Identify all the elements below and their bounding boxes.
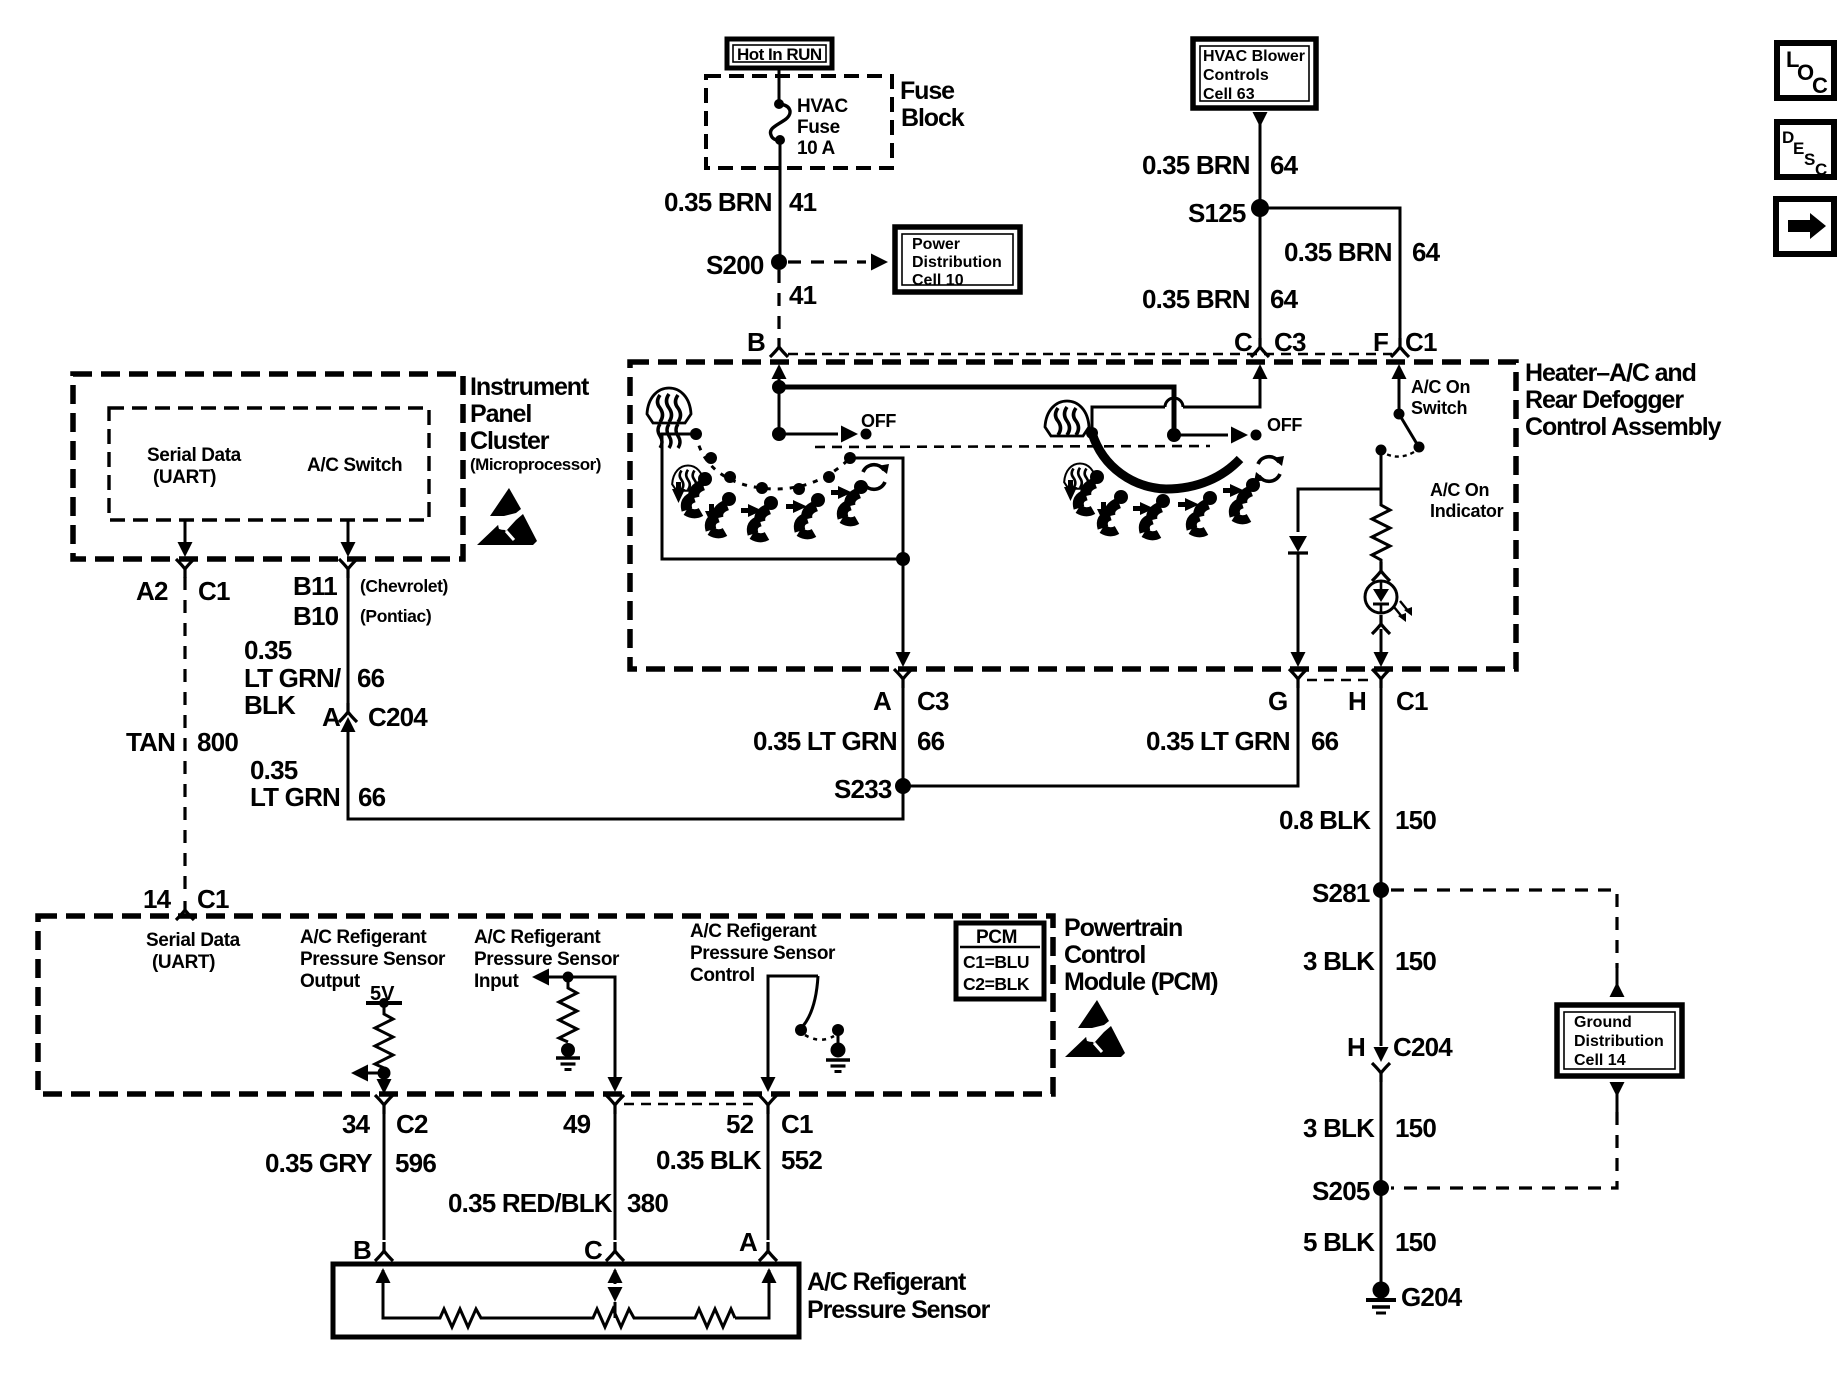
wire: S200 down to B (dashed), label 41 bbox=[777, 270, 780, 340]
wire: 34 to sensor B, 0.35 GRY 596 bbox=[383, 1113, 386, 1240]
svg-text:Input: Input bbox=[474, 971, 519, 992]
wire: S281 down to C204, 3 BLK 150 bbox=[1380, 890, 1383, 1046]
svg-text:H: H bbox=[1348, 686, 1366, 716]
connector chevron A2/C1 bbox=[176, 559, 194, 578]
wire: A down to S233, 0.35 LT GRN 66 bbox=[902, 687, 905, 786]
junction left wiper bbox=[772, 427, 786, 441]
wire: S125 branch right and down to F bbox=[1260, 208, 1400, 340]
svg-text:F: F bbox=[1373, 327, 1388, 357]
svg-text:3 BLK: 3 BLK bbox=[1303, 946, 1375, 976]
svg-text:C1: C1 bbox=[1405, 327, 1437, 357]
svg-text:(UART): (UART) bbox=[152, 952, 215, 973]
svg-text:66: 66 bbox=[917, 726, 945, 756]
splice S205 bbox=[1373, 1180, 1389, 1196]
arrow exit A bbox=[896, 652, 911, 667]
svg-text:C3: C3 bbox=[917, 686, 949, 716]
wire: C into assembly bbox=[1253, 364, 1268, 379]
svg-text:Hot In RUN: Hot In RUN bbox=[737, 45, 822, 64]
PCM legend box bbox=[956, 923, 1044, 999]
reference box Power Distribution Cell 10 bbox=[895, 227, 1020, 292]
in-line connector H/C204 (arrow + fork) bbox=[1374, 1047, 1389, 1062]
svg-text:LT GRN/: LT GRN/ bbox=[244, 663, 341, 693]
svg-text:380: 380 bbox=[627, 1188, 668, 1218]
svg-text:0.35: 0.35 bbox=[250, 755, 298, 785]
connector chevron at sensor B bbox=[375, 1242, 393, 1261]
defrost icon (right small) bbox=[1064, 463, 1096, 488]
svg-text:0.35 GRY: 0.35 GRY bbox=[265, 1148, 372, 1178]
svg-text:C: C bbox=[1815, 160, 1827, 179]
mechanical link dashed line bbox=[815, 446, 1210, 447]
svg-text:49: 49 bbox=[563, 1109, 591, 1139]
Heater-A/C and Rear Defogger Control Assembly dashed box bbox=[630, 362, 1516, 669]
svg-text:BLK: BLK bbox=[244, 690, 296, 720]
resistor (output pull-up) bbox=[375, 1003, 393, 1073]
resistor (indicator) bbox=[1372, 489, 1390, 563]
reference box HVAC Blower Controls Cell 63 bbox=[1193, 39, 1316, 108]
svg-text:Control: Control bbox=[1064, 941, 1145, 969]
left arc contact dots bbox=[690, 428, 702, 440]
svg-text:0.35 BRN: 0.35 BRN bbox=[664, 187, 772, 217]
connector chevron at sensor A bbox=[759, 1242, 777, 1261]
wire: hop to right arc contact bbox=[1092, 407, 1165, 428]
svg-text:C1: C1 bbox=[1396, 686, 1428, 716]
sensor resistor 2 bbox=[589, 1309, 691, 1327]
LED light rays bbox=[1394, 601, 1409, 618]
connector chevron at F bbox=[1391, 338, 1409, 357]
svg-text:Serial Data: Serial Data bbox=[147, 445, 242, 466]
svg-text:B: B bbox=[353, 1235, 371, 1265]
svg-text:B: B bbox=[747, 327, 765, 357]
LED indicator bbox=[1365, 581, 1397, 613]
svg-text:64: 64 bbox=[1412, 237, 1441, 267]
svg-text:Pressure Sensor: Pressure Sensor bbox=[690, 943, 836, 964]
svg-text:G: G bbox=[1268, 686, 1287, 716]
sensor resistor 3 bbox=[691, 1309, 735, 1327]
diode bbox=[1289, 536, 1307, 552]
svg-text:Rear Defogger: Rear Defogger bbox=[1525, 386, 1684, 414]
svg-text:G204: G204 bbox=[1401, 1282, 1463, 1312]
svg-text:150: 150 bbox=[1395, 1113, 1436, 1143]
defrost icon (right large) bbox=[1045, 401, 1089, 436]
svg-text:(UART): (UART) bbox=[153, 467, 216, 488]
wire: 49 to sensor C, 0.35 RED/BLK 380 bbox=[614, 1113, 617, 1240]
ESD sensitive symbol (IPC) bbox=[477, 488, 537, 545]
svg-text:Fuse: Fuse bbox=[797, 117, 840, 138]
svg-text:S205: S205 bbox=[1312, 1176, 1370, 1206]
svg-text:800: 800 bbox=[197, 727, 238, 757]
svg-text:Control: Control bbox=[690, 965, 755, 986]
right switch thick contact arc bbox=[1092, 433, 1240, 489]
input arrow left + wire right then down bbox=[532, 969, 549, 986]
svg-text:Controls: Controls bbox=[1203, 67, 1269, 84]
svg-text:34: 34 bbox=[342, 1109, 371, 1139]
wire: S233 right to G bbox=[903, 687, 1298, 786]
svg-text:0.35 RED/BLK: 0.35 RED/BLK bbox=[448, 1188, 613, 1218]
svg-text:HVAC Blower: HVAC Blower bbox=[1203, 48, 1305, 65]
svg-text:Powertrain: Powertrain bbox=[1064, 914, 1182, 942]
power source box "Hot In RUN" bbox=[727, 39, 832, 68]
svg-text:TAN: TAN bbox=[126, 727, 175, 757]
connector face dashed line C3/C1 bbox=[788, 353, 1392, 356]
svg-text:Output: Output bbox=[300, 971, 361, 992]
svg-text:0.35 BRN: 0.35 BRN bbox=[1142, 284, 1250, 314]
svg-text:C204: C204 bbox=[368, 702, 428, 732]
svg-text:14: 14 bbox=[143, 884, 172, 914]
svg-text:0.8 BLK: 0.8 BLK bbox=[1279, 805, 1371, 835]
svg-text:10 A: 10 A bbox=[797, 138, 836, 159]
output node arrow left bbox=[378, 1067, 391, 1080]
svg-text:A/C On: A/C On bbox=[1430, 480, 1489, 500]
recirculation icon (right) bbox=[1254, 456, 1284, 482]
svg-text:C2=BLK: C2=BLK bbox=[963, 974, 1030, 994]
svg-text:A: A bbox=[322, 702, 341, 732]
svg-text:Cluster: Cluster bbox=[470, 427, 550, 455]
connector face dashed line 49-52 bbox=[624, 1103, 760, 1106]
svg-text:Switch: Switch bbox=[1411, 398, 1467, 418]
svg-text:A: A bbox=[739, 1227, 758, 1257]
left switch contact arc (dashed with contact dots) bbox=[696, 434, 850, 489]
svg-text:C2: C2 bbox=[396, 1109, 428, 1139]
sensor pin C internal wiper wire bbox=[614, 1270, 617, 1284]
left switch common loop wire bbox=[662, 434, 903, 656]
junction at B feed top bbox=[772, 380, 786, 394]
connector chevron 52/C1 bbox=[759, 1095, 777, 1114]
svg-text:S281: S281 bbox=[1312, 878, 1370, 908]
wire: S205 down to G204, 5 BLK 150 bbox=[1380, 1188, 1383, 1283]
sensor pin A internal wire bbox=[735, 1270, 769, 1318]
wire: A/C switch LT GRN/BLK down to C204 bbox=[347, 577, 350, 705]
svg-text:A/C On: A/C On bbox=[1411, 377, 1470, 397]
svg-text:552: 552 bbox=[781, 1145, 822, 1175]
svg-text:150: 150 bbox=[1395, 805, 1436, 835]
connector chevron 34/C2 bbox=[375, 1095, 393, 1114]
splice S281 bbox=[1373, 882, 1389, 898]
mode icons row (left switch) bbox=[672, 482, 685, 503]
svg-text:66: 66 bbox=[357, 663, 385, 693]
svg-text:S: S bbox=[1804, 150, 1815, 169]
svg-text:0.35: 0.35 bbox=[244, 635, 292, 665]
svg-text:Panel: Panel bbox=[470, 400, 531, 428]
Instrument Panel Cluster dashed box bbox=[73, 374, 463, 559]
wire hop over feed bbox=[1165, 398, 1183, 407]
svg-text:A/C Refigerant: A/C Refigerant bbox=[474, 927, 601, 948]
svg-text:Instrument: Instrument bbox=[470, 373, 590, 401]
svg-text:64: 64 bbox=[1270, 150, 1299, 180]
Powertrain Control Module dashed box bbox=[38, 916, 1053, 1094]
svg-text:52: 52 bbox=[726, 1109, 754, 1139]
svg-text:C204: C204 bbox=[1393, 1032, 1453, 1062]
connector chevron G bbox=[1289, 669, 1307, 688]
control switch contact + travel arc bbox=[832, 1024, 844, 1036]
svg-text:Cell 14: Cell 14 bbox=[1574, 1052, 1626, 1069]
splice S125 bbox=[1251, 199, 1269, 217]
5V supply bar bbox=[366, 1001, 402, 1005]
LOC nav box bbox=[1777, 43, 1834, 98]
A/C Refigerant Pressure Sensor box bbox=[333, 1264, 799, 1337]
svg-text:C: C bbox=[1812, 73, 1828, 98]
svg-text:Pressure Sensor: Pressure Sensor bbox=[474, 949, 620, 970]
wire: serial data pin down inside IPC bbox=[184, 520, 187, 548]
svg-text:(Pontiac): (Pontiac) bbox=[360, 606, 431, 626]
svg-text:66: 66 bbox=[358, 782, 386, 812]
svg-text:C: C bbox=[1234, 327, 1253, 357]
junction on loop bbox=[896, 552, 910, 566]
svg-text:A2: A2 bbox=[136, 576, 168, 606]
svg-text:B10: B10 bbox=[293, 601, 339, 631]
right contact wire bbox=[850, 458, 903, 559]
input junction dot bbox=[563, 972, 574, 983]
svg-text:Pressure Sensor: Pressure Sensor bbox=[300, 949, 446, 970]
sensor resistor 1 bbox=[436, 1309, 589, 1327]
dashed branch S281 to Ground Distribution bbox=[1391, 890, 1617, 968]
wire: F into assembly bbox=[1392, 364, 1407, 379]
svg-text:150: 150 bbox=[1395, 1227, 1436, 1257]
left wiper arrow to OFF bbox=[779, 433, 838, 436]
svg-text:Block: Block bbox=[901, 104, 965, 132]
svg-text:OFF: OFF bbox=[1267, 415, 1302, 435]
svg-text:3 BLK: 3 BLK bbox=[1303, 1113, 1375, 1143]
arrow out of blower box bbox=[1253, 112, 1268, 127]
svg-text:Distribution: Distribution bbox=[912, 254, 1002, 271]
chevron above LED bbox=[1372, 562, 1390, 581]
svg-text:C1=BLU: C1=BLU bbox=[963, 952, 1029, 972]
svg-text:0.35 BRN: 0.35 BRN bbox=[1284, 237, 1392, 267]
svg-text:0.35 BLK: 0.35 BLK bbox=[656, 1145, 762, 1175]
in-line connector A/C204 (fork + up arrow) bbox=[339, 703, 357, 722]
svg-text:5 BLK: 5 BLK bbox=[1303, 1227, 1375, 1257]
DESC nav box bbox=[1777, 122, 1834, 179]
sensor pin B internal wire bbox=[383, 1270, 436, 1318]
svg-text:Indicator: Indicator bbox=[1430, 501, 1504, 521]
splice S200 bbox=[771, 254, 787, 270]
connector chevron 49/C1 bbox=[606, 1095, 624, 1114]
fuse block dashed box bbox=[706, 76, 892, 168]
svg-text:Ground: Ground bbox=[1574, 1014, 1632, 1031]
svg-text:150: 150 bbox=[1395, 946, 1436, 976]
svg-text:C1: C1 bbox=[197, 884, 229, 914]
control switch ground bbox=[837, 1035, 840, 1044]
wire: B into assembly bbox=[772, 364, 787, 379]
svg-text:OFF: OFF bbox=[861, 411, 896, 431]
svg-text:(Microprocessor): (Microprocessor) bbox=[470, 455, 601, 474]
mode icons row (right switch) bbox=[1064, 480, 1077, 501]
svg-text:A/C Refigerant: A/C Refigerant bbox=[300, 927, 427, 948]
reference box Ground Distribution Cell 14 bbox=[1557, 1005, 1682, 1076]
svg-text:H: H bbox=[1347, 1032, 1365, 1062]
wire: H down to S281, 0.8 BLK 150 bbox=[1380, 687, 1383, 890]
wire: TAN 800 serial data (dashed) bbox=[183, 577, 186, 898]
connector chevron 14/C1 bbox=[176, 901, 194, 920]
wire: contact down, split to diode + indicator bbox=[1298, 450, 1381, 532]
svg-text:66: 66 bbox=[1311, 726, 1339, 756]
wire: A/C switch pin down inside IPC bbox=[347, 520, 350, 548]
svg-text:C1: C1 bbox=[781, 1109, 813, 1139]
svg-text:S200: S200 bbox=[706, 250, 764, 280]
defrost icon (left small) bbox=[672, 465, 704, 490]
wire: Hot In RUN to fuse bbox=[778, 68, 781, 102]
defrost icon (left large) bbox=[647, 388, 691, 423]
ground G204 bbox=[1373, 1282, 1390, 1299]
control switch blade bbox=[803, 976, 818, 1026]
dashed branch Ground Distribution to S205 bbox=[1610, 1082, 1625, 1097]
wire: blower box to S125, 0.35 BRN 64 bbox=[1259, 124, 1262, 208]
recirculation icon (left) bbox=[859, 464, 889, 490]
IPC inner dashed box (microprocessor) bbox=[109, 408, 429, 520]
control switch: feed wire bbox=[768, 976, 818, 1080]
svg-text:A: A bbox=[873, 686, 892, 716]
connector chevron B11/B10 bbox=[339, 559, 357, 578]
svg-text:Heater–A/C and: Heater–A/C and bbox=[1525, 359, 1696, 387]
wire: fuse to S200, 0.35 BRN 41 bbox=[779, 141, 782, 262]
A/C On switch pivot, blade, contact bbox=[1394, 409, 1405, 420]
svg-text:Fuse: Fuse bbox=[900, 77, 955, 105]
svg-text:A/C Refigerant: A/C Refigerant bbox=[807, 1268, 967, 1296]
ESD sensitive symbol (PCM) bbox=[1065, 1000, 1125, 1057]
svg-text:Cell 10: Cell 10 bbox=[912, 272, 964, 289]
svg-text:A/C Switch: A/C Switch bbox=[307, 455, 402, 476]
connector chevron H bbox=[1372, 669, 1390, 688]
connector chevron at sensor C bbox=[606, 1242, 624, 1261]
wire: diode down to G exit bbox=[1297, 553, 1300, 656]
wire: C204 down then right to S233, 0.35 LT GRN 66 bbox=[348, 730, 903, 819]
right wiper arrow to OFF bbox=[1174, 434, 1228, 437]
wire: 52 to sensor A, 0.35 BLK 552 bbox=[767, 1113, 770, 1240]
svg-text:B11: B11 bbox=[293, 571, 337, 601]
svg-text:64: 64 bbox=[1270, 284, 1299, 314]
svg-text:S125: S125 bbox=[1188, 198, 1246, 228]
svg-text:C1: C1 bbox=[198, 576, 230, 606]
svg-text:A/C Refigerant: A/C Refigerant bbox=[690, 921, 817, 942]
svg-text:LT GRN: LT GRN bbox=[250, 782, 340, 812]
right wiper junction bbox=[1167, 428, 1181, 442]
svg-text:HVAC: HVAC bbox=[797, 96, 849, 117]
ground (input resistor) bbox=[561, 1043, 575, 1057]
svg-text:Power: Power bbox=[912, 236, 960, 253]
svg-text:41: 41 bbox=[789, 280, 817, 310]
svg-text:41: 41 bbox=[789, 187, 817, 217]
svg-text:Module (PCM): Module (PCM) bbox=[1064, 968, 1218, 996]
svg-text:0.35 BRN: 0.35 BRN bbox=[1142, 150, 1250, 180]
fuse HVAC Fuse 10 A bbox=[770, 99, 790, 145]
right arc contact dot bbox=[1086, 427, 1098, 439]
wire: output down to PCM edge bbox=[383, 1073, 386, 1082]
svg-text:C: C bbox=[584, 1235, 603, 1265]
thick feed wire to right switch bbox=[779, 387, 1174, 435]
resistor (input) bbox=[559, 977, 577, 1042]
splice S233 bbox=[895, 778, 911, 794]
wire: C204 down to S205, 3 BLK 150 bbox=[1380, 1081, 1383, 1188]
svg-text:PCM: PCM bbox=[976, 927, 1017, 948]
svg-text:Control Assembly: Control Assembly bbox=[1525, 413, 1722, 441]
svg-text:0.35 LT GRN: 0.35 LT GRN bbox=[1146, 726, 1290, 756]
svg-text:(Chevrolet): (Chevrolet) bbox=[360, 576, 448, 596]
svg-text:S233: S233 bbox=[834, 774, 892, 804]
connector chevron at C bbox=[1251, 338, 1269, 357]
wire: LED down to H exit bbox=[1380, 629, 1383, 656]
wire: S125 down to C, 0.35 BRN 64 bbox=[1259, 208, 1262, 340]
connector chevron at B (C3) bbox=[770, 338, 788, 357]
svg-text:C3: C3 bbox=[1274, 327, 1306, 357]
svg-text:Distribution: Distribution bbox=[1574, 1033, 1664, 1050]
dashed arrow to Power Distribution bbox=[788, 260, 866, 263]
svg-text:Cell 63: Cell 63 bbox=[1203, 86, 1255, 103]
svg-text:E: E bbox=[1793, 139, 1804, 158]
svg-text:596: 596 bbox=[395, 1148, 436, 1178]
connector face dashed G-H bbox=[1307, 679, 1372, 682]
svg-text:0.35 LT GRN: 0.35 LT GRN bbox=[753, 726, 897, 756]
chevron below LED bbox=[1372, 615, 1390, 634]
connector chevron A/C3 bbox=[894, 669, 912, 688]
arrow nav box bbox=[1776, 199, 1834, 254]
svg-text:Serial Data: Serial Data bbox=[146, 930, 241, 951]
svg-text:Pressure Sensor: Pressure Sensor bbox=[807, 1296, 991, 1324]
